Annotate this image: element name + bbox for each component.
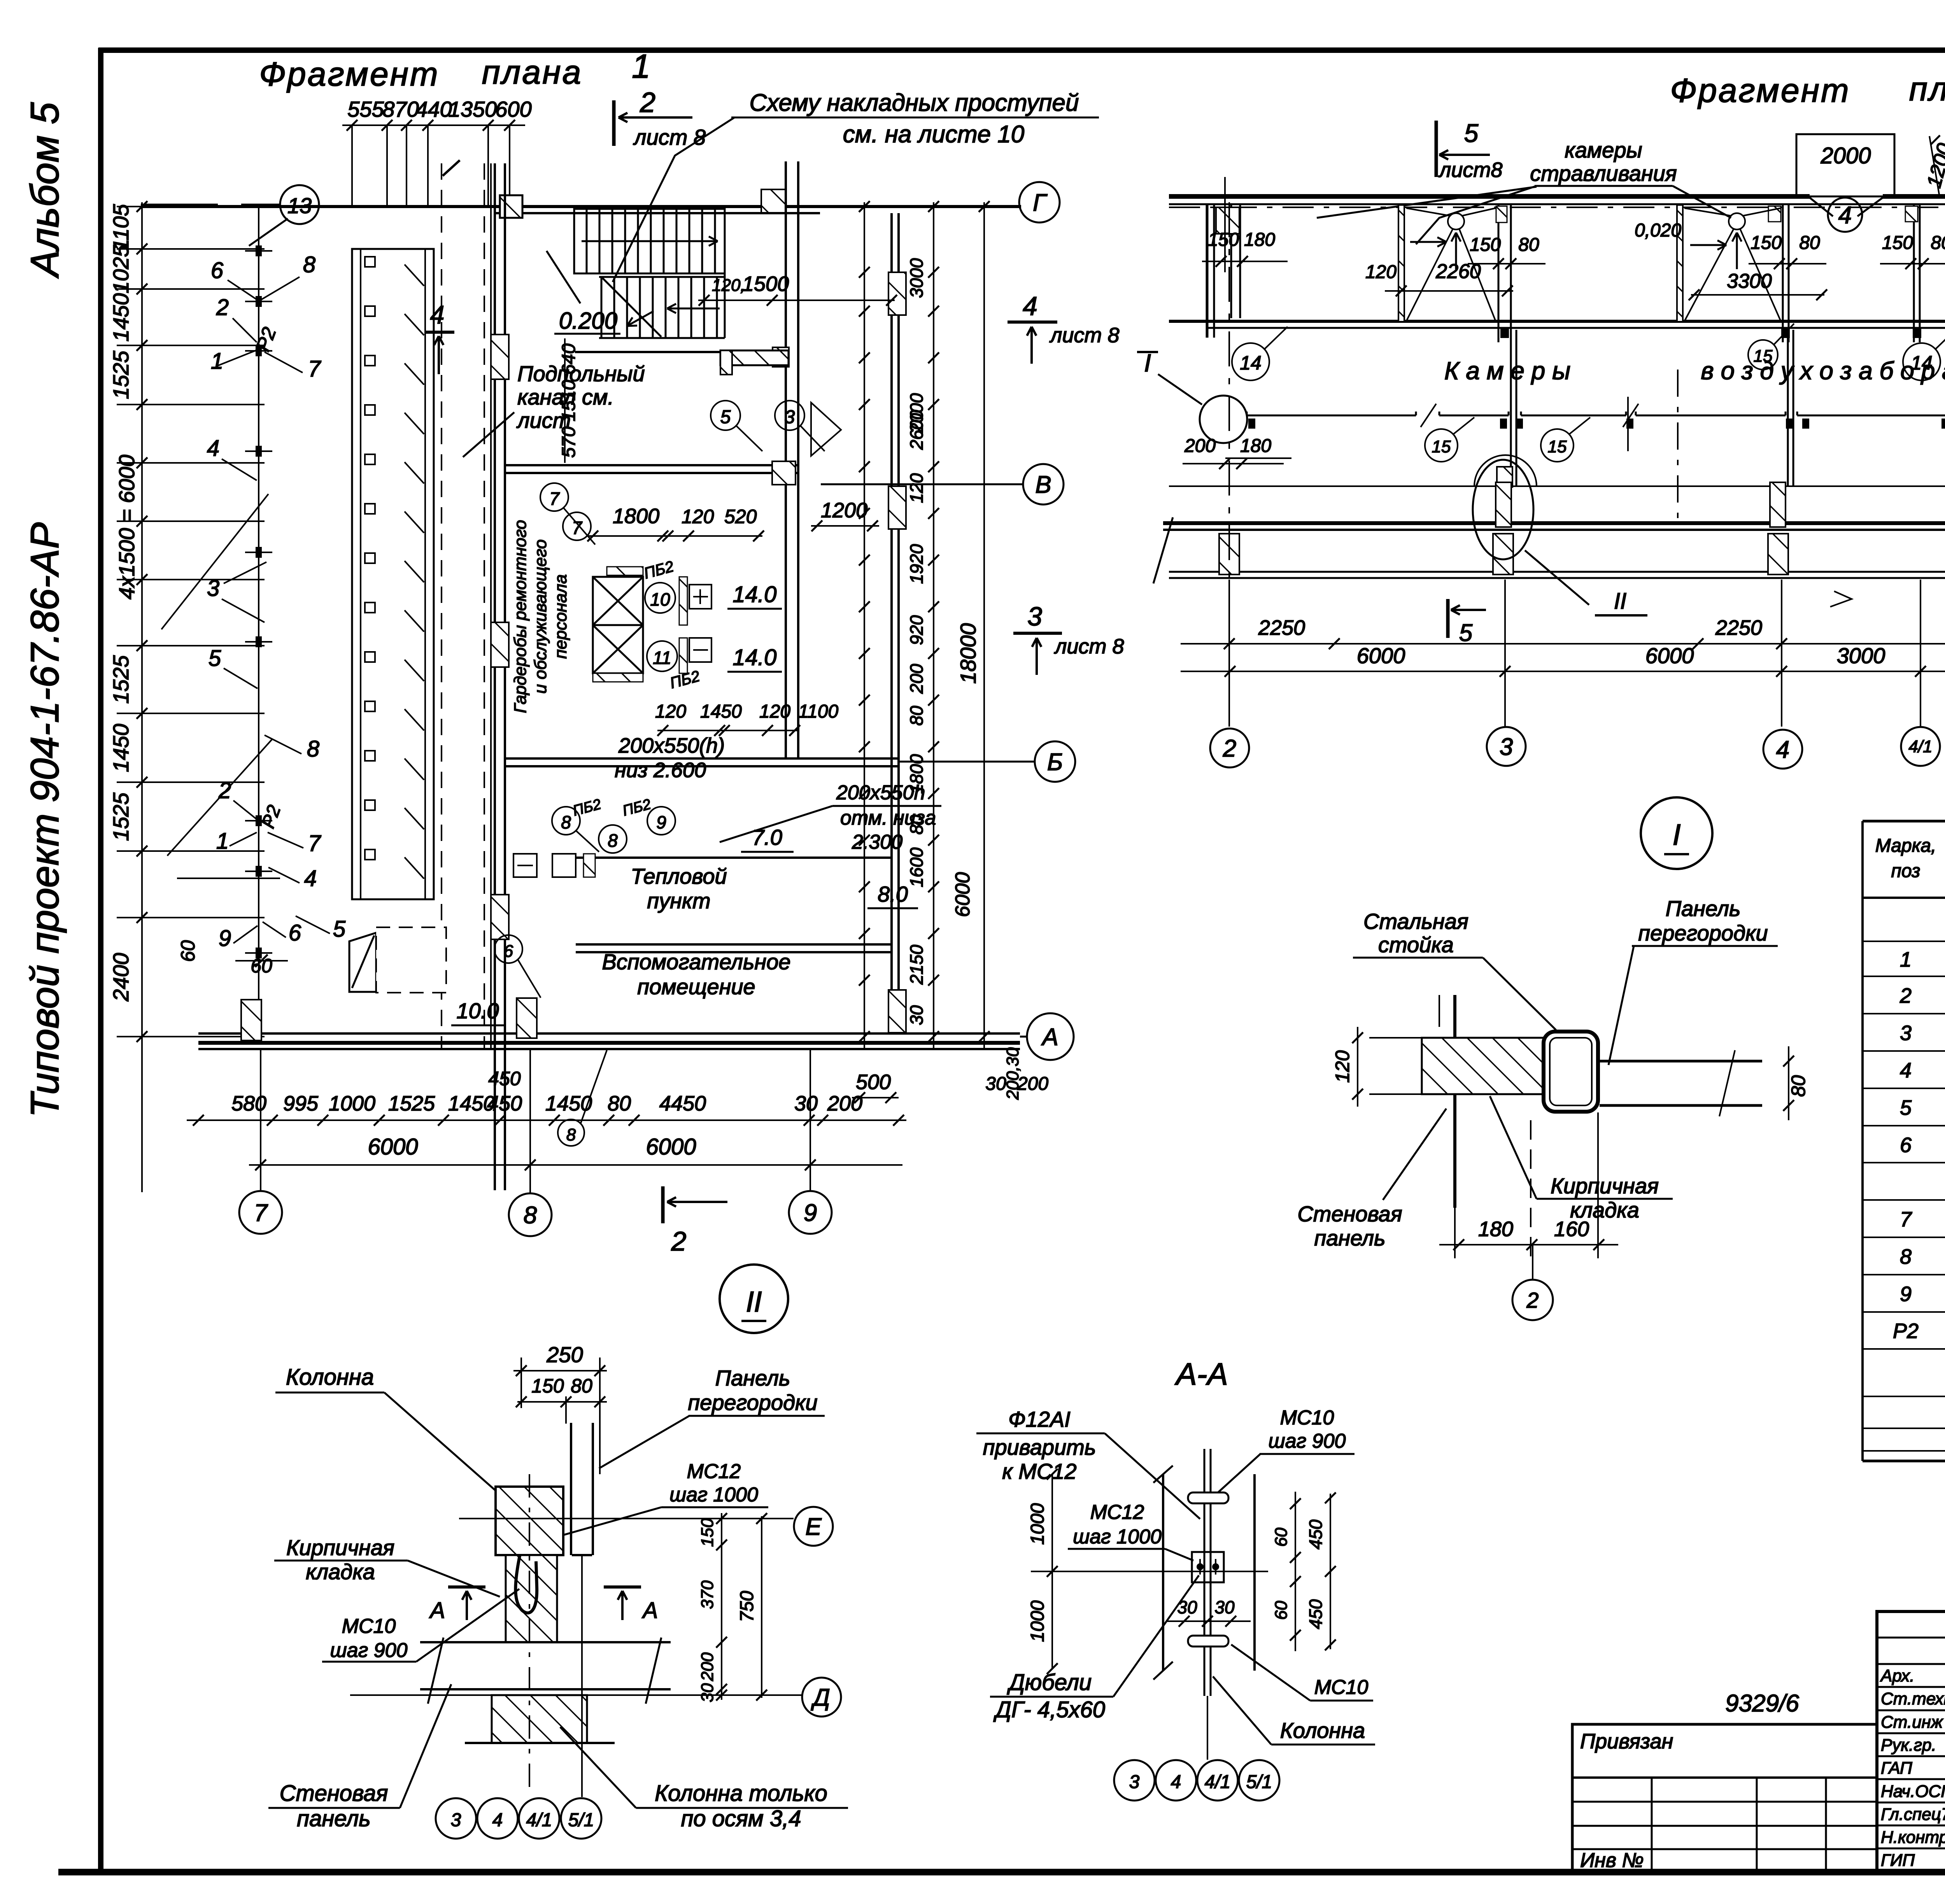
svg-text:5: 5 [1459, 620, 1473, 646]
circled 7 pair (wardrobe) [540, 483, 568, 511]
svg-text:3: 3 [1900, 1021, 1912, 1045]
svg-text:60: 60 [177, 940, 199, 962]
svg-text:шаг 1000: шаг 1000 [1073, 1526, 1162, 1548]
black anchors at pair bottoms [1500, 328, 1509, 338]
channel end ramp [349, 933, 376, 992]
svg-text:1: 1 [632, 48, 650, 85]
axis Ж top wall of plan 2 [1169, 194, 1810, 199]
svg-text:18000: 18000 [956, 623, 980, 684]
svg-text:МС12: МС12 [687, 1460, 741, 1483]
svg-text:995: 995 [283, 1092, 319, 1115]
svg-text:750: 750 [737, 1591, 757, 1622]
svg-text:плана: плана [482, 54, 583, 91]
svg-text:Стеновая: Стеновая [1297, 1202, 1402, 1226]
top dim line [342, 124, 525, 126]
svg-text:8: 8 [561, 812, 571, 832]
svg-text:Типовой проект 904-1-67.86: Типовой проект 904-1-67.86-АР [23, 522, 67, 1118]
svg-text:200: 200 [1184, 436, 1216, 456]
svg-text:6: 6 [1900, 1133, 1912, 1157]
svg-text:1: 1 [211, 349, 223, 374]
svg-text:30: 30 [794, 1092, 818, 1115]
svg-text:150: 150 [698, 1518, 717, 1547]
partition anchor squares [1248, 419, 1255, 429]
А-А top rail [1188, 1492, 1228, 1503]
А section marks [448, 1585, 485, 1589]
svg-text:2260: 2260 [1435, 260, 1481, 283]
axis Г wall (top wall of plan 1) [141, 205, 1021, 208]
svg-text:стравливания: стравливания [1530, 161, 1677, 186]
svg-text:200: 200 [827, 1092, 862, 1115]
extension verticals from top dims [351, 125, 353, 206]
svg-text:панель: панель [297, 1806, 371, 1831]
svg-text:450: 450 [487, 1092, 522, 1115]
svg-text:200: 200 [698, 1652, 717, 1682]
svg-text:80: 80 [1787, 1075, 1809, 1097]
svg-text:панель: панель [1314, 1226, 1385, 1250]
partition pin line at x=665 [258, 207, 259, 1035]
svg-text:Ф12АI: Ф12АI [1008, 1407, 1071, 1431]
svg-text:250: 250 [546, 1342, 583, 1367]
svg-text:Ст.техн.: Ст.техн. [1881, 1689, 1945, 1708]
svg-text:440: 440 [415, 97, 452, 121]
vertical mesh partition walls [1510, 330, 1512, 486]
svg-text:2250: 2250 [1258, 616, 1305, 639]
stairwell right wall [785, 161, 787, 758]
axis Ж dash-dot line [1169, 207, 1945, 208]
svg-text:120: 120 [1365, 262, 1397, 282]
detail II column hatched [496, 1487, 563, 1555]
svg-text:2: 2 [216, 295, 229, 320]
leaders from note to chambers [1416, 186, 1537, 244]
svg-text:МС10: МС10 [1314, 1676, 1369, 1699]
detail II anchor hook МС10 [515, 1556, 537, 1613]
svg-text:Рук.гр.: Рук.гр. [1881, 1736, 1936, 1755]
svg-text:1: 1 [1900, 948, 1912, 971]
detail I big circle [1641, 797, 1712, 869]
svg-text:150: 150 [1750, 233, 1782, 253]
svg-text:4/1: 4/1 [1205, 1772, 1231, 1792]
svg-text:пункт: пункт [647, 888, 710, 913]
svg-text:МС12: МС12 [1090, 1501, 1144, 1524]
axis Д wall [1163, 521, 1945, 525]
svg-text:1350: 1350 [449, 97, 497, 121]
svg-text:5: 5 [1464, 119, 1479, 147]
svg-text:80: 80 [1518, 235, 1539, 255]
svg-text:2250: 2250 [1715, 616, 1762, 639]
А-А bottom rail [1188, 1636, 1228, 1647]
svg-text:Б: Б [1047, 749, 1063, 776]
svg-text:6000: 6000 [646, 1134, 696, 1160]
left vertical dim chain of plan 1 [141, 202, 143, 1192]
inner wall y~2205 (теплопункт) [576, 857, 892, 859]
svg-text:2400: 2400 [109, 953, 133, 1002]
svg-text:15: 15 [1754, 347, 1773, 366]
svg-text:120: 120 [759, 701, 790, 722]
svg-text:6000: 6000 [1645, 643, 1694, 668]
svg-text:ГАП: ГАП [1881, 1759, 1912, 1778]
big diagonal leaders left area [161, 494, 268, 629]
svg-text:5: 5 [720, 407, 731, 427]
svg-text:плана: плана [1909, 70, 1945, 108]
svg-text:II: II [1614, 589, 1626, 614]
svg-text:9: 9 [804, 1200, 817, 1226]
svg-text:1450: 1450 [545, 1092, 592, 1115]
svg-text:МС10: МС10 [342, 1615, 396, 1638]
svg-text:приварить: приварить [983, 1435, 1096, 1459]
svg-text:Д: Д [811, 1684, 830, 1711]
svg-text:180: 180 [1244, 229, 1275, 250]
svg-text:9329/6: 9329/6 [1725, 1690, 1799, 1717]
svg-text:2: 2 [1899, 984, 1912, 1007]
svg-text:4: 4 [207, 436, 219, 461]
leader from note to stairs [613, 117, 734, 282]
hatched divider walls (full height) [1398, 205, 1404, 322]
svg-text:Привязан: Привязан [1580, 1730, 1673, 1753]
main vertical wall x~1285 [494, 163, 496, 1190]
svg-text:Колонна: Колонна [1280, 1718, 1365, 1743]
svg-text:Гл.спец70: Гл.спец70 [1881, 1805, 1945, 1824]
svg-text:шаг 900: шаг 900 [330, 1639, 408, 1662]
svg-text:шаг 900: шаг 900 [1269, 1430, 1346, 1452]
svg-text:9: 9 [1900, 1282, 1912, 1306]
axis А bottom wall (triple line) [198, 1032, 1020, 1035]
vertical center dashes [1627, 397, 1629, 451]
lower wall lines [1169, 571, 1945, 573]
svg-text:1000: 1000 [1027, 1600, 1048, 1642]
detail II brick pier [506, 1555, 557, 1642]
svg-text:10: 10 [650, 589, 670, 610]
svg-text:Н.контр.: Н.контр. [1881, 1828, 1945, 1847]
svg-text:кладка: кладка [306, 1559, 375, 1584]
svg-text:7: 7 [1900, 1208, 1912, 1231]
door arc in wall E [1474, 455, 1537, 486]
svg-text:Схему накладных проступей: Схему накладных проступей [750, 89, 1079, 116]
svg-text:7: 7 [308, 356, 322, 382]
svg-text:Стальная: Стальная [1363, 909, 1468, 934]
svg-text:1600: 1600 [906, 847, 927, 887]
circled 8 8 9 row [552, 807, 580, 835]
svg-text:Ст.инж: Ст.инж [1881, 1713, 1943, 1732]
svg-text:Инв №: Инв № [1580, 1849, 1644, 1872]
svg-text:1: 1 [216, 829, 229, 854]
svg-text:1100: 1100 [798, 701, 839, 722]
circled 13 on axis Г [280, 185, 319, 224]
svg-text:30: 30 [698, 1683, 717, 1702]
svg-text:1525: 1525 [109, 792, 133, 841]
detail I bottom dims 180 160 [1454, 1112, 1456, 1258]
svg-text:персонала: персонала [551, 574, 570, 659]
svg-text:к МС12: к МС12 [1002, 1459, 1076, 1484]
svg-text:1450: 1450 [109, 293, 133, 342]
right dim chain (x~2220) of plan 1 [864, 202, 865, 1050]
hatched columns on axis А wall [241, 1000, 261, 1040]
svg-text:1500: 1500 [742, 272, 789, 296]
svg-text:60: 60 [1272, 1527, 1291, 1547]
svg-text:лист8: лист8 [1438, 158, 1503, 182]
svg-text:К а м е р ы: К а м е р ы [1444, 357, 1570, 385]
chamber stand wall pairs [1498, 205, 1500, 342]
svg-text:6: 6 [289, 920, 301, 946]
svg-text:9: 9 [219, 926, 231, 951]
svg-text:14.0: 14.0 [733, 582, 777, 607]
detail II right dim chain [721, 1513, 722, 1700]
circled 14 markers [1232, 343, 1269, 380]
svg-text:120: 120 [906, 473, 927, 503]
svg-text:14.0: 14.0 [733, 645, 777, 670]
detail II bottom axis circles 3 4 4/1 5/1 [436, 1798, 476, 1839]
svg-text:13: 13 [287, 193, 312, 218]
svg-text:1450: 1450 [700, 701, 742, 722]
svg-text:2: 2 [1223, 735, 1236, 762]
chamber bottom line [1169, 320, 1945, 323]
svg-text:30: 30 [906, 1005, 927, 1025]
detail II big circle [720, 1265, 788, 1333]
svg-text:60: 60 [1272, 1601, 1291, 1620]
hatched block on axis Г wall [500, 195, 522, 218]
svg-text:А-А: А-А [1174, 1357, 1228, 1391]
svg-text:Марка,: Марка, [1875, 836, 1936, 856]
svg-text:Панель: Панель [715, 1366, 790, 1390]
svg-text:низ 2.600: низ 2.600 [615, 758, 706, 782]
stair diagonal cut line [602, 278, 661, 337]
column lines to bottom circles [260, 1050, 261, 1191]
axis В wall segment [506, 464, 798, 466]
axis Е line [1169, 485, 1945, 487]
attachment strip box [1572, 1724, 1877, 1872]
svg-text:1800: 1800 [906, 754, 927, 794]
bottom dim row 1 of plan 2 [1181, 643, 1945, 645]
detail II wall band [420, 1641, 671, 1643]
title block row lines (left part) [1877, 1686, 1945, 1688]
axis В line and circle [821, 483, 1022, 485]
stair treads lower flight [601, 277, 603, 338]
svg-text:7: 7 [308, 831, 322, 856]
svg-text:и обслуживающего: и обслуживающего [531, 539, 550, 694]
svg-text:Стеновая: Стеновая [280, 1781, 388, 1806]
axis 4 circle at top gap [1828, 198, 1862, 232]
svg-text:3000: 3000 [906, 258, 927, 298]
svg-text:2000: 2000 [1820, 143, 1871, 168]
circled 15 markers [1425, 429, 1458, 462]
hatched blocks on main wall [491, 335, 509, 379]
svg-text:1000: 1000 [1027, 1503, 1048, 1545]
svg-text:Колонна только: Колонна только [655, 1781, 827, 1806]
А-А left dim chain 1000 1000 [1051, 1474, 1053, 1669]
svg-text:Панель: Панель [1666, 896, 1741, 921]
bottom axis circles 7 8 9 [239, 1191, 282, 1234]
svg-text:Вспомогательное: Вспомогательное [602, 949, 790, 974]
svg-text:3300: 3300 [1727, 270, 1772, 293]
sheet border frame [98, 47, 1945, 53]
axis Д line (detail II) [350, 1694, 802, 1696]
svg-text:6000: 6000 [368, 1134, 418, 1160]
svg-text:1105: 1105 [109, 204, 133, 251]
axis Е line (detail II) [459, 1518, 794, 1519]
svg-text:120: 120 [1332, 1050, 1353, 1083]
detail II partition panel vertical [570, 1423, 572, 1555]
svg-text:4х1500 = 6000: 4х1500 = 6000 [114, 455, 139, 599]
svg-text:5/1: 5/1 [568, 1810, 594, 1830]
bottom axis circles of plan 2 [1210, 729, 1249, 767]
parapet box 2000 [1796, 134, 1894, 196]
svg-text:см. на листе 10: см. на листе 10 [843, 121, 1025, 148]
svg-text:1800: 1800 [613, 504, 659, 528]
svg-text:600: 600 [495, 97, 531, 121]
channel diagonal slashes [405, 264, 424, 286]
svg-text:II: II [746, 1286, 762, 1318]
svg-text:в о з д у х о з а б о р а: в о з д у х о з а б о р а [1701, 357, 1945, 385]
detail I steel tube profile [1544, 1032, 1598, 1112]
outer right chain 18000 [983, 202, 985, 1050]
svg-text:3000: 3000 [1837, 643, 1885, 668]
svg-text:7: 7 [549, 489, 560, 509]
А-А bottom axis circles [1114, 1760, 1155, 1801]
dashed equipment rectangle [376, 927, 446, 993]
circled 15 markers upper [1748, 340, 1778, 370]
svg-text:120: 120 [655, 701, 686, 722]
svg-text:8.0: 8.0 [878, 882, 908, 906]
svg-text:4: 4 [304, 866, 317, 891]
extension lines to left chain [117, 206, 265, 207]
svg-text:Фрагмент: Фрагмент [259, 56, 439, 93]
svg-text:1025: 1025 [109, 245, 133, 293]
svg-text:4: 4 [1838, 202, 1852, 229]
svg-text:80: 80 [1799, 233, 1820, 253]
svg-text:180: 180 [1478, 1217, 1513, 1241]
chamber vertical arrows [1455, 233, 1457, 269]
svg-text:6000: 6000 [1357, 643, 1405, 668]
svg-text:200: 200 [906, 664, 927, 694]
svg-text:ГИП: ГИП [1881, 1851, 1915, 1870]
small fixtures near shafts [689, 585, 711, 609]
svg-text:570 1510 640: 570 1510 640 [559, 343, 579, 458]
chamber slope arrows [1410, 241, 1446, 243]
svg-text:3: 3 [1129, 1772, 1140, 1792]
svg-text:4: 4 [1023, 291, 1037, 321]
svg-text:5/1: 5/1 [1246, 1772, 1272, 1792]
svg-text:1920: 1920 [906, 544, 927, 584]
partition pins [256, 245, 262, 256]
А-А middle plate with bolts [1192, 1552, 1224, 1582]
wall x~2300 right outer wall of plan 1 [890, 213, 893, 1035]
svg-text:кладка: кладка [1570, 1198, 1639, 1222]
svg-text:920: 920 [906, 615, 927, 645]
svg-text:200,30: 200,30 [1003, 1047, 1022, 1100]
inner wall y~2435 [576, 943, 892, 946]
svg-text:А: А [1041, 1024, 1058, 1051]
svg-text:Е: Е [805, 1513, 822, 1540]
svg-text:5: 5 [333, 916, 346, 942]
mesh partition line y=1068 [1247, 415, 1416, 417]
svg-text:4: 4 [1776, 736, 1789, 763]
spec table grid [1863, 820, 1945, 823]
small fixtures row y~2190 [513, 854, 537, 877]
leader from note to channel [463, 412, 514, 457]
svg-text:80: 80 [571, 1375, 592, 1397]
svg-text:стойка: стойка [1378, 932, 1454, 957]
svg-text:Альбом 5: Альбом 5 [23, 102, 67, 279]
svg-text:500: 500 [856, 1070, 891, 1094]
svg-text:370: 370 [698, 1580, 717, 1609]
svg-text:Г: Г [1033, 189, 1048, 216]
svg-text:11: 11 [653, 648, 671, 668]
svg-text:Нач.ОСП-1: Нач.ОСП-1 [1881, 1782, 1945, 1801]
hatched columns below Д wall [1219, 534, 1239, 575]
detail I brick hatch band [1422, 1038, 1585, 1094]
svg-text:камеры: камеры [1565, 138, 1642, 162]
channel inner lines [360, 249, 361, 899]
svg-text:150: 150 [531, 1375, 564, 1397]
wall below stairs (hatched band) [720, 350, 789, 365]
А-А center stand lines [1204, 1449, 1206, 1696]
svg-text:2: 2 [1526, 1288, 1538, 1312]
svg-text:I: I [1672, 818, 1680, 851]
svg-text:8: 8 [307, 736, 319, 762]
svg-text:0,020: 0,020 [1635, 220, 1681, 241]
detail II lower column hatched [492, 1695, 587, 1743]
svg-text:0.200: 0.200 [559, 308, 617, 334]
svg-text:Р2: Р2 [1893, 1319, 1919, 1343]
svg-text:поз: поз [1891, 861, 1920, 881]
column axis verticals of plan 2 [1228, 580, 1230, 727]
svg-text:2: 2 [671, 1226, 687, 1256]
svg-text:по осям 3,4: по осям 3,4 [681, 1806, 801, 1831]
svg-text:4: 4 [492, 1810, 503, 1830]
svg-text:6: 6 [211, 258, 224, 283]
svg-text:150: 150 [1208, 229, 1239, 250]
stair treads upper flight [586, 209, 588, 273]
svg-text:450: 450 [1305, 1519, 1326, 1549]
bottom dim row 2 of plan 2 [1181, 671, 1945, 672]
second chain with rotated numbers [933, 202, 934, 1050]
Z break on channel top [443, 160, 460, 176]
svg-text:8: 8 [566, 1125, 576, 1144]
circled 8 bottom leader [558, 1119, 584, 1146]
svg-text:555: 555 [347, 97, 384, 121]
svg-text:8: 8 [303, 252, 315, 277]
svg-text:4: 4 [1171, 1772, 1181, 1792]
svg-text:Дюбели: Дюбели [1007, 1670, 1092, 1695]
dashed service duct lines [441, 163, 442, 1050]
svg-text:6: 6 [504, 942, 513, 961]
svg-text:3: 3 [785, 407, 795, 427]
А-А panel verticals [1162, 1474, 1164, 1671]
svg-text:10.0: 10.0 [457, 998, 499, 1023]
attachment strip lines [1572, 1776, 1877, 1779]
axis А circle [1027, 1013, 1074, 1060]
upper group leader lines [228, 280, 257, 300]
svg-text:2: 2 [218, 778, 231, 803]
svg-text:80: 80 [906, 706, 927, 726]
svg-text:450: 450 [1305, 1599, 1326, 1629]
node I circle at left [1200, 396, 1247, 443]
svg-text:2.300: 2.300 [852, 831, 902, 853]
axis Б wall segment [506, 757, 898, 760]
svg-text:120,: 120, [712, 276, 745, 295]
svg-text:450: 450 [488, 1068, 521, 1090]
svg-text:помещение: помещение [637, 974, 755, 999]
svg-text:МС10: МС10 [1280, 1407, 1334, 1429]
axis Г circle [1019, 182, 1060, 222]
title block main box [1877, 1611, 1945, 1872]
detail I dim 120 [1357, 1027, 1358, 1107]
node II ellipse marker [1473, 460, 1533, 559]
svg-text:6000: 6000 [951, 872, 974, 917]
svg-text:лист 8: лист 8 [1054, 635, 1124, 658]
svg-text:3: 3 [451, 1810, 461, 1830]
circled 10 and 11 with ПБ2 labels [645, 583, 675, 613]
wall break marks [1153, 517, 1173, 583]
